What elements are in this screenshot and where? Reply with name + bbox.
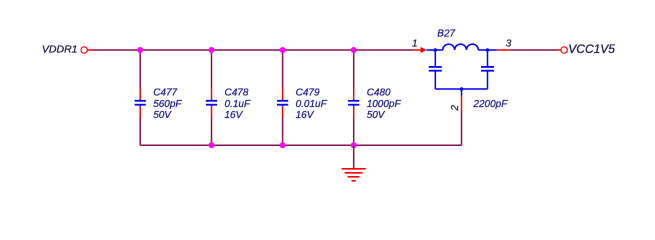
B27 internal junction dots xyxy=(434,48,490,91)
label C479 value xyxy=(296,88,328,122)
svg-text:2200pF: 2200pF xyxy=(472,99,508,110)
svg-text:0.1uF: 0.1uF xyxy=(225,99,251,110)
wire pin3 to VCC1V5 xyxy=(509,49,558,51)
svg-text:0.01uF: 0.01uF xyxy=(296,99,328,110)
svg-text:50V: 50V xyxy=(367,110,386,121)
svg-text:B27: B27 xyxy=(437,29,455,40)
junction dots top rail xyxy=(137,47,357,53)
svg-text:C480: C480 xyxy=(367,88,391,99)
red stub at VDDR1 terminal xyxy=(87,49,93,51)
capacitor C479 xyxy=(277,88,288,118)
svg-text:16V: 16V xyxy=(296,110,315,121)
svg-text:50V: 50V xyxy=(153,110,172,121)
label C480 value xyxy=(367,88,402,122)
svg-text:1000pF: 1000pF xyxy=(367,99,402,110)
terminal circle VDDR1 xyxy=(81,47,87,53)
wire C479 bottom xyxy=(282,118,284,146)
wire C477 top xyxy=(139,50,141,88)
wire C480 top xyxy=(353,50,355,88)
svg-text:3: 3 xyxy=(506,39,512,50)
wire C477 bottom xyxy=(139,118,141,146)
svg-text:C479: C479 xyxy=(296,88,320,99)
wire C478 bottom xyxy=(211,118,213,146)
junction dots bottom rail xyxy=(209,142,357,148)
terminal circle VCC1V5 xyxy=(561,47,567,53)
svg-text:C478: C478 xyxy=(225,88,249,99)
label C478 value xyxy=(225,88,251,122)
ground xyxy=(342,166,366,181)
wire ground stub xyxy=(353,145,355,166)
wire C479 top xyxy=(282,50,284,88)
svg-text:2: 2 xyxy=(450,105,461,112)
svg-text:C477: C477 xyxy=(153,88,177,99)
ferrite bead B27 pin 2 (red) xyxy=(461,96,463,112)
wire bottom rail xyxy=(140,144,461,146)
wire pin2 to bottom rail xyxy=(461,111,463,145)
capacitor C480 xyxy=(348,88,359,118)
svg-text:VCC1V5: VCC1V5 xyxy=(568,42,615,56)
svg-text:VDDR1: VDDR1 xyxy=(42,43,78,55)
ferrite bead B27 pin 1 (red with arrow) xyxy=(413,47,427,53)
svg-text:16V: 16V xyxy=(225,110,244,121)
ferrite bead B27 pin 3 (red) xyxy=(497,49,510,51)
red stub at VCC1V5 terminal xyxy=(558,49,561,51)
wire top rail xyxy=(93,49,413,51)
svg-text:560pF: 560pF xyxy=(153,99,182,110)
capacitor C478 xyxy=(206,88,217,118)
ferrite bead B27 body xyxy=(426,44,496,95)
label C477 value xyxy=(153,88,182,122)
capacitor C477 xyxy=(135,88,146,118)
wire C480 bottom xyxy=(353,118,355,146)
svg-text:1: 1 xyxy=(412,39,418,50)
wire C478 top xyxy=(211,50,213,88)
